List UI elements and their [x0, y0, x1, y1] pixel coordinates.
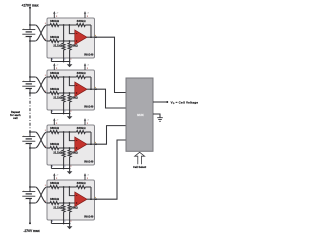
wire MUX ground stub — [153, 114, 160, 118]
svg-text:380kΩ: 380kΩ — [77, 181, 87, 185]
wire bus bottom segment — [29, 203, 31, 223]
divider resistor R14 21.1k ohm vertical — [62, 41, 65, 62]
svg-text:21.1kΩ: 21.1kΩ — [53, 96, 62, 100]
divider resistor R34 21.1k ohm vertical — [62, 148, 65, 169]
+Vs supply pin a of U3 with up arrow — [53, 118, 59, 125]
ground rail under U2 — [51, 113, 70, 115]
input resistor R13 380k ohm on +IN row — [47, 40, 75, 43]
ground symbol (arrow style) for U2 — [67, 114, 73, 120]
+Vs supply pin a of U4 with up arrow — [53, 173, 59, 180]
label Repeat for each cell — [10, 110, 21, 120]
input resistor R43 380k ohm on +IN row — [47, 202, 75, 205]
+Vs supply pin a of U2 with up arrow — [53, 63, 59, 70]
svg-text:MUX: MUX — [137, 113, 143, 117]
output wire of U1 with feedback junction — [87, 35, 97, 38]
svg-text:380kΩ: 380kΩ — [50, 71, 60, 75]
input resistor R11 380k ohm on -IN row — [47, 24, 77, 27]
wire link row A to row B at x=63.6 — [63, 187, 65, 203]
svg-text:380kΩ: 380kΩ — [50, 181, 60, 185]
divider resistor R44 21.1k ohm vertical — [62, 203, 65, 224]
op-amp A3 red triangle — [75, 137, 87, 152]
twisted pair wires from cell B3 taps to U3 inputs — [30, 132, 47, 148]
node dots on -IN row of U1 — [63, 24, 71, 26]
ground symbol (arrow style) for U1 — [67, 62, 73, 68]
+Vs supply pin b of U4 with up arrow — [84, 173, 90, 180]
+Vs supply pin b of U3 with up arrow — [84, 118, 90, 125]
wire bus between cell B1 and B2 — [29, 41, 31, 77]
ground rail under U3 — [51, 168, 70, 170]
divider resistor R45 20k ohm vertical — [68, 203, 71, 224]
ground rail under U1 — [51, 61, 70, 63]
reference pin stub of U4 — [50, 220, 52, 224]
svg-text:380kΩ: 380kΩ — [77, 19, 87, 23]
multiplexer MUX body — [126, 78, 153, 151]
+Vs supply pin b of U2 with up arrow — [84, 63, 90, 70]
reference pin stub of U2 — [50, 110, 52, 114]
node dots on -IN row of U3 — [63, 131, 71, 133]
battery cell B3 of stack — [22, 131, 35, 149]
svg-text:380kΩ: 380kΩ — [50, 87, 60, 91]
pin number specks U1 — [45, 23, 71, 60]
svg-text:+270V max: +270V max — [21, 3, 38, 7]
op-amp A4 red triangle — [75, 192, 87, 207]
svg-text:cell: cell — [13, 116, 18, 120]
wire to inverting input of op-amp A4 — [69, 187, 74, 196]
output wire of U3 with feedback junction — [87, 142, 97, 145]
twisted pair wires from cell B2 taps to U2 inputs — [30, 77, 47, 93]
reference pin stub of U3 — [50, 165, 52, 169]
svg-text:380kΩ: 380kΩ — [50, 19, 60, 23]
feedback resistor R32 380k ohm — [77, 131, 92, 145]
wire bus top segment — [29, 8, 31, 25]
wire MUX output — [153, 101, 168, 103]
ground rail under U4 — [51, 223, 70, 225]
ground symbol at MUX — [157, 118, 163, 122]
battery cell B1 of stack — [22, 24, 35, 42]
input resistor R31 380k ohm on -IN row — [47, 131, 77, 134]
ground symbol (arrow style) for U4 — [67, 224, 73, 230]
output wire of U4 with feedback junction — [87, 197, 97, 200]
svg-text:INA149: INA149 — [84, 159, 94, 163]
wire to inverting input of op-amp A2 — [69, 77, 74, 86]
+Vs supply pin a of U1 with up arrow — [53, 11, 59, 18]
divider resistor R35 20k ohm vertical — [68, 148, 71, 169]
reference pin stub of U1 — [50, 58, 52, 62]
feedback resistor R22 380k ohm — [77, 76, 92, 90]
op-amp difference amplifier block U4 (INA149) body — [47, 180, 95, 220]
node dots on +IN row of U4 — [63, 202, 71, 204]
Cell Select block arrow into MUX — [135, 152, 145, 164]
wire link row A to row B at x=63.6 — [63, 77, 65, 93]
op-amp difference amplifier block U1 (INA149) body — [47, 18, 95, 58]
feedback resistor R12 380k ohm — [77, 24, 92, 38]
twisted pair wires from cell B4 taps to U4 inputs — [30, 187, 47, 203]
ground symbol (arrow style) for U3 — [67, 169, 73, 175]
node dots on +IN row of U3 — [63, 147, 71, 149]
wire link row A to row B at x=63.6 — [63, 25, 65, 41]
twisted pair wires from cell B1 taps to U1 inputs — [30, 25, 47, 41]
svg-text:380kΩ: 380kΩ — [77, 126, 87, 130]
input resistor R21 380k ohm on -IN row — [47, 76, 77, 79]
node dots on -IN row of U2 — [63, 76, 71, 78]
svg-text:INA149: INA149 — [84, 52, 94, 56]
divider resistor R24 21.1k ohm vertical — [62, 93, 65, 114]
svg-text:21.1kΩ: 21.1kΩ — [53, 206, 62, 210]
bottom bus node dot — [29, 222, 31, 224]
svg-text:380kΩ: 380kΩ — [50, 197, 60, 201]
node dots on -IN row of U4 — [63, 186, 71, 188]
top bus node dot — [29, 7, 31, 9]
op-amp difference amplifier block U2 (INA149) body — [47, 70, 95, 110]
pin number specks U2 — [45, 75, 71, 112]
node dots on +IN row of U2 — [63, 92, 71, 94]
wire channel 4 output to MUX input 4 — [96, 140, 126, 199]
wire to inverting input of op-amp A3 — [69, 132, 74, 141]
svg-text:380kΩ: 380kΩ — [50, 126, 60, 130]
wire to inverting input of op-amp A1 — [69, 25, 74, 34]
pin number specks U3 — [45, 130, 71, 167]
wire link row A to row B at x=63.6 — [63, 132, 65, 148]
op-amp difference amplifier block U3 (INA149) body — [47, 125, 95, 165]
svg-text:380kΩ: 380kΩ — [50, 142, 60, 146]
op-amp A2 red triangle — [75, 82, 87, 97]
wire bus dash-dot continuation between B2 and B3 — [29, 94, 31, 132]
svg-text:Cell Select: Cell Select — [133, 165, 146, 169]
divider resistor R15 20k ohm vertical — [68, 41, 71, 62]
wire channel 1 output to MUX input 1 — [96, 37, 126, 92]
circuit schematic: battery stack cell monitoring with INA149 difference amps and MUX — [0, 0, 200, 246]
divider resistor R25 20k ohm vertical — [68, 93, 71, 114]
svg-text:INA149: INA149 — [84, 104, 94, 108]
svg-text:380kΩ: 380kΩ — [50, 35, 60, 39]
svg-text:-270V max: -270V max — [23, 229, 39, 233]
battery cell B2 of stack — [22, 76, 35, 94]
wire bus between cell B3 and B4 — [29, 148, 31, 187]
node dots on +IN row of U1 — [63, 40, 71, 42]
svg-text:VO = Cell Voltage: VO = Cell Voltage — [171, 100, 199, 105]
svg-text:INA149: INA149 — [84, 214, 94, 218]
input resistor R33 380k ohm on +IN row — [47, 147, 75, 150]
input resistor R41 380k ohm on -IN row — [47, 186, 77, 189]
battery cell B4 of stack — [22, 186, 35, 204]
feedback resistor R42 380k ohm — [77, 186, 92, 200]
+Vs supply pin b of U1 with up arrow — [84, 11, 90, 18]
op-amp A1 red triangle — [75, 30, 87, 45]
output wire of U2 with feedback junction — [87, 87, 97, 90]
svg-text:21.1kΩ: 21.1kΩ — [53, 151, 62, 155]
wire channel 3 output to MUX input 3 — [96, 126, 126, 145]
pin number specks U4 — [45, 185, 71, 222]
wire channel 2 output to MUX input 2 — [96, 89, 126, 108]
svg-text:380kΩ: 380kΩ — [77, 71, 87, 75]
input resistor R23 380k ohm on +IN row — [47, 92, 75, 95]
svg-text:21.1kΩ: 21.1kΩ — [53, 44, 62, 48]
